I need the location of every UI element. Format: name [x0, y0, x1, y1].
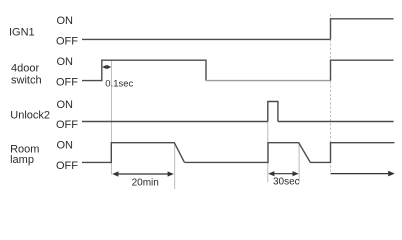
dashed marker IGN-on at x=330.5 — [330, 14, 332, 174]
svg-text:switch: switch — [11, 75, 42, 87]
wire IGN1 rising edge and ON segment — [331, 19, 394, 40]
svg-text:30sec: 30sec — [273, 177, 300, 188]
wire Unlock2 OFF left segment — [82, 121, 268, 123]
svg-text:ON: ON — [57, 15, 74, 27]
wire Room lamp OFF short, rising edge, ON right segment — [310, 143, 394, 163]
wire 4door OFF light segment — [206, 80, 331, 82]
wire IGN1 OFF segment — [82, 38, 331, 40]
arrow 0.1sec double-headed — [102, 65, 111, 69]
svg-text:20min: 20min — [132, 178, 159, 189]
arrow 20min double-headed — [112, 171, 174, 176]
svg-text:ON: ON — [57, 56, 74, 68]
svg-text:OFF: OFF — [56, 35, 78, 47]
arrow time-continues right — [331, 171, 395, 177]
svg-text:OFF: OFF — [56, 119, 78, 131]
svg-text:OFF: OFF — [56, 77, 78, 89]
svg-text:OFF: OFF — [56, 160, 78, 172]
svg-text:lamp: lamp — [10, 154, 34, 166]
svg-text:0.1sec: 0.1sec — [105, 78, 133, 89]
wire Unlock2 OFF right segment — [278, 121, 394, 123]
dashed marker 30sec-left at x=267.8 — [267, 102, 269, 183]
arrow 30sec double-headed — [268, 171, 299, 176]
wire 4door rising edge and ON segment right — [331, 60, 394, 80]
wire 4door OFF stub, rising edge, ON segment, falling edge — [82, 60, 206, 80]
svg-text:ON: ON — [57, 99, 74, 111]
dashed marker 20min-right at x=174.7 — [174, 143, 176, 189]
dashed marker 0.1sec/20min-left at x=111.4 — [110, 60, 112, 175]
svg-text:ON: ON — [57, 140, 74, 152]
svg-text:Unlock2: Unlock2 — [10, 110, 50, 122]
dashed marker 30sec-right at x=299.1 — [298, 143, 300, 182]
wire Room lamp OFF middle, rising edge, second ON pulse with ramp down — [185, 143, 311, 163]
svg-text:IGN1: IGN1 — [9, 27, 35, 39]
wire Unlock2 pulse — [268, 102, 278, 122]
wire Room lamp OFF stub, rising edge, first ON pulse with ramp down — [82, 143, 185, 163]
svg-text:4door: 4door — [11, 63, 39, 75]
